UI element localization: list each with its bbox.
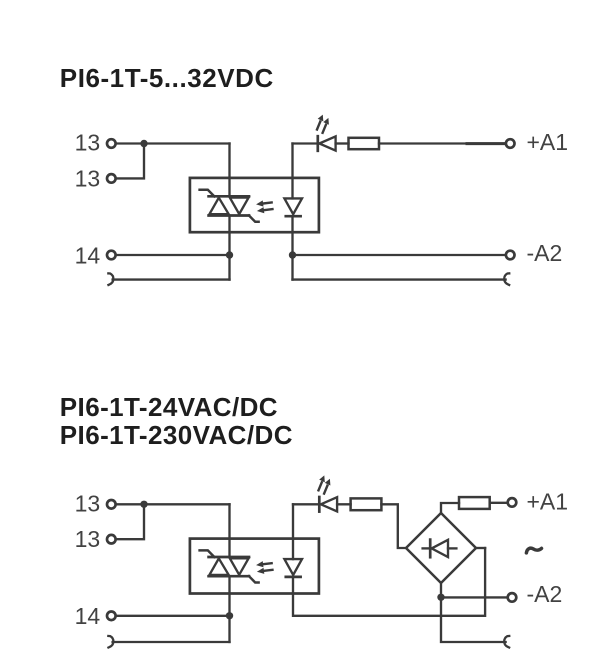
plug contact left (D2) (107, 636, 113, 648)
terminal circle 14 (107, 251, 116, 260)
wire triac branch vertical upper (228, 144, 230, 197)
terminal circle -A2 (506, 251, 515, 260)
optocoupler light arrows (256, 199, 274, 214)
wire diode branch vertical upper (291, 144, 293, 199)
svg-text:-A2: -A2 (527, 581, 563, 607)
svg-text:+A1: +A1 (527, 129, 569, 155)
wire LED to resistor (D2) (337, 503, 351, 505)
svg-text:+A1: +A1 (527, 489, 569, 515)
wire triac branch vertical upper (D2) (228, 504, 230, 557)
wire bridge bottom to -A2 (D2) (440, 583, 442, 597)
wire diode branch to LED (293, 142, 318, 144)
junction dot diode/-A2 (289, 251, 296, 258)
bridge rectifier diamond (406, 513, 476, 583)
resistor R2 (D2) (459, 497, 490, 509)
junction dot 14/triac (D2) (226, 612, 233, 619)
wire 14 to triac branch (D2) (117, 615, 230, 617)
svg-text:14: 14 (75, 603, 101, 629)
wire plug right row (293, 278, 506, 280)
plug contact right (top diagram) (504, 273, 510, 285)
svg-text:PI6-1T-24VAC/DC: PI6-1T-24VAC/DC (60, 392, 278, 422)
photodiode (input, D2) (284, 559, 302, 577)
wire plug left to triac branch (113, 278, 230, 280)
wire 13 second to junction (117, 144, 144, 179)
LED light arrows (317, 115, 329, 133)
wire bridge top to resistor R2 (441, 503, 459, 513)
wire 13 top to triac branch (D2) (117, 503, 230, 505)
svg-text:13: 13 (75, 526, 101, 552)
wire triac branch vertical lower (D2) (228, 576, 230, 642)
wire to -A2 (D2) (441, 596, 506, 598)
wire plug left to triac branch (D2) (113, 641, 230, 643)
wire resistor R2 to +A1 (D2) (490, 502, 507, 504)
wire plug right row (D2) (441, 597, 506, 642)
bridge diode (423, 540, 457, 558)
resistor R1 (D2) (351, 498, 382, 510)
wire bridge right corner (476, 547, 485, 549)
wire diode branch vertical lower (291, 216, 293, 279)
svg-text:13: 13 (75, 130, 101, 156)
wire diode branch to LED (D2) (293, 503, 319, 505)
optocoupler light arrows (D2) (256, 560, 274, 575)
wire LED to resistor (336, 142, 349, 144)
wire diode branch vertical lower (D2) (293, 548, 485, 616)
terminal circle 13 (second) (107, 174, 116, 183)
svg-text:13: 13 (75, 491, 101, 517)
plug contact right (D2) (504, 636, 510, 648)
plug contact left (top diagram) (107, 273, 113, 285)
wire 14 to triac branch (117, 254, 230, 256)
terminal circle -A2 (D2) (508, 593, 517, 602)
wire resistor R1 to bridge left corner (381, 504, 406, 548)
triac (output, D2) (200, 550, 259, 582)
junction dot 13 wires (D2) (140, 501, 147, 508)
wire triac branch vertical lower (228, 216, 230, 280)
svg-text:13: 13 (75, 166, 101, 192)
LED indicator (318, 136, 336, 151)
terminal circle 13 (top, D2) (107, 500, 116, 509)
wire diode branch vertical upper (D2) (292, 504, 294, 559)
resistor R (top) (349, 138, 380, 149)
wire overlap segment near +A1 (467, 142, 505, 145)
svg-text:-A2: -A2 (527, 240, 563, 266)
svg-text:14: 14 (75, 242, 101, 268)
svg-text:PI6-1T-5...32VDC: PI6-1T-5...32VDC (60, 63, 274, 93)
terminal circle +A1 (506, 139, 515, 148)
LED indicator (D2) (319, 497, 337, 512)
optocoupler box U2 (190, 539, 319, 594)
svg-text:PI6-1T-230VAC/DC: PI6-1T-230VAC/DC (60, 420, 293, 450)
terminal circle 13 (second, D2) (107, 535, 116, 544)
wire to -A2 (293, 254, 506, 256)
terminal circle +A1 (D2) (508, 498, 517, 507)
wire resistor to +A1 (379, 142, 505, 144)
LED light arrows (D2) (319, 475, 331, 493)
junction dot 14/triac (226, 251, 233, 258)
triac (output) (200, 190, 259, 222)
junction dot bridge bottom (D2) (437, 594, 444, 601)
terminal circle 14 (D2) (107, 612, 116, 621)
photodiode (input) (284, 198, 302, 216)
junction dot 13 wires (140, 140, 147, 147)
wire 13 top to triac branch (117, 142, 230, 144)
AC tilde symbol (526, 548, 541, 553)
terminal circle 13 (top) (107, 139, 116, 148)
wire 13 second to junction (D2) (117, 504, 144, 539)
optocoupler box U1 (190, 178, 319, 232)
